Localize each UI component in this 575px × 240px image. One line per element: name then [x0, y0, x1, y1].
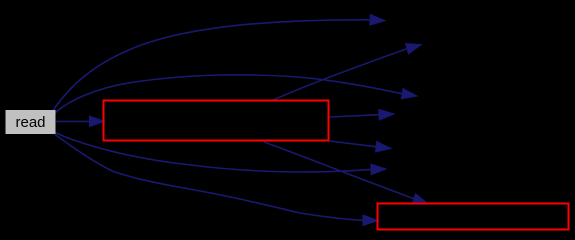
- edge read->box2 (bottom curve): [55, 135, 363, 221]
- edge read->node1 (top curve): [53, 20, 370, 111]
- node read (gray box): [6, 110, 56, 134]
- edge read->node3 (second top curve): [55, 75, 402, 113]
- edge box1->box2 (down-right from bottom edge): [264, 142, 414, 199]
- node box2 (bottom-right red box, label hidden): [378, 204, 569, 230]
- node box1 (middle red box, label hidden): [104, 101, 329, 141]
- arrowhead box1->node4: [379, 109, 394, 120]
- edge box1->node2 (up-right from top edge): [272, 49, 407, 101]
- arrowhead box1->node2: [406, 44, 422, 54]
- edge read->node6 (lower curve): [55, 133, 371, 172]
- arrowhead read->node6: [371, 164, 386, 175]
- svg-text:read: read: [15, 114, 45, 131]
- arrowhead read->node3: [401, 89, 417, 99]
- edge box1->node5 (bottom-right corner): [330, 141, 378, 147]
- edge box1->node4 (right edge): [330, 115, 381, 117]
- arrowhead box1->box2: [412, 194, 428, 204]
- edge read->box1 (straight arrow): [56, 120, 91, 122]
- arrowhead read->box2: [363, 215, 378, 226]
- arrowhead box1->node5: [376, 141, 392, 152]
- arrowhead read->box1: [90, 116, 105, 127]
- arrowhead read->node1: [370, 15, 385, 26]
